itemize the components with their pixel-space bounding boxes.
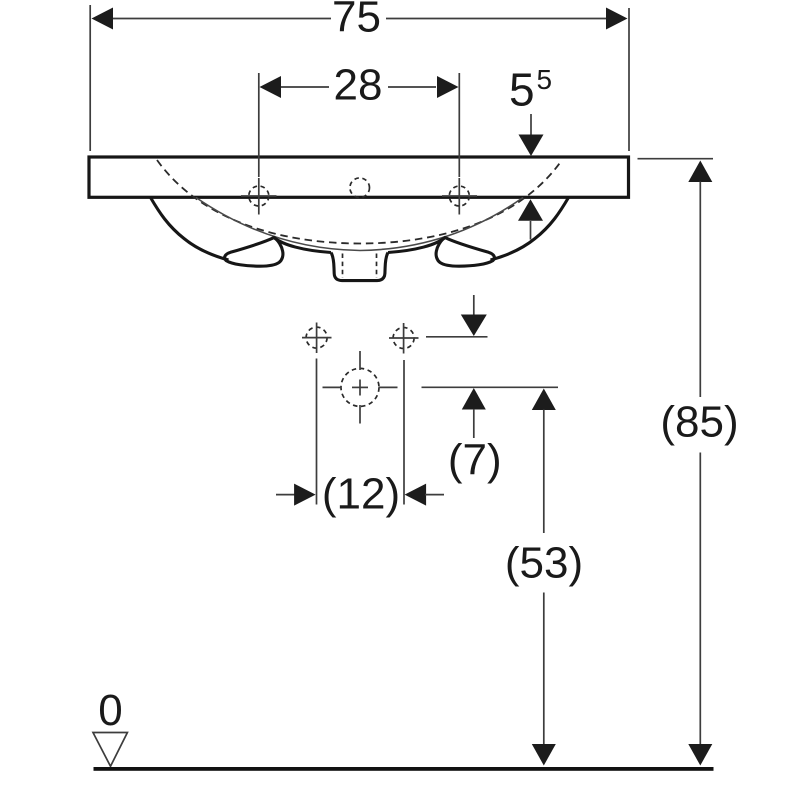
tap hole left: dashed circle + crosshair [241,178,277,215]
dimension 85: line with arrows both ends [688,161,712,183]
fixing hole left: dashed circle + crosshair [302,323,332,354]
drain hidden edge left (dashed) [342,254,344,279]
svg-text:5: 5 [537,64,553,95]
dimension 5.5: lower arrow (up) [518,199,543,221]
dimension 75: line [113,18,606,20]
dimension 75: arrow left [92,8,114,30]
dimension 12: arrow right (pointing left) [405,484,427,506]
dimension 12: extension line right [403,360,405,505]
washbasin rim (front view rectangle) [89,157,629,197]
drain stub [331,253,388,281]
svg-text:(7): (7) [448,436,502,485]
drain hidden edge right (dashed) [376,254,378,279]
dimension 75: extension line left [89,5,91,151]
svg-text:0: 0 [98,686,122,735]
dimension 53: line with arrows both ends [532,389,556,411]
dimension 75: extension line right [628,8,630,151]
shelf line right [388,238,445,253]
dimension 12: arrow left (pointing right) [276,494,296,496]
svg-text:75: 75 [332,0,381,42]
tap hole right: dashed circle + crosshair [442,178,477,215]
fixing hole right: dashed circle + crosshair [389,323,419,354]
dimension 28: extension line right [458,73,460,177]
dimension 75: arrow right [606,8,628,30]
dimension 7: upper arrow (down) pointing at tap-hole level [473,295,475,315]
dimension 7: lower arrow (up) pointing at basin centre level [462,388,486,410]
svg-text:(12): (12) [322,470,400,519]
zero datum triangle [93,733,127,767]
svg-text:28: 28 [334,61,383,110]
bowl silhouette right [491,198,569,261]
inner bowl back edge (dashed arc) [157,160,562,244]
basin centre level line [422,386,559,388]
dimension 5.5: upper arrow (down) [530,114,532,135]
left underside wedge [225,238,283,267]
dimension 28: arrow right [437,76,459,98]
dimension 28: extension line left [258,73,260,177]
dimension 85: extension line from rim [638,158,714,160]
dimension 28: arrow left [260,76,282,98]
tap hole level line [426,336,488,338]
shelf line left [274,238,331,253]
floor line [94,767,714,771]
right underside wedge [436,238,494,267]
dimension 28: line [281,86,436,88]
inner bowl front edge (thin arc) [196,198,523,251]
svg-text:5: 5 [509,64,535,116]
waste hole: dashed circle + centre marks [323,351,398,424]
dimension 12: extension line left [316,359,318,505]
svg-text:(53): (53) [505,539,583,588]
svg-text:(85): (85) [660,398,738,447]
tap hole middle: dashed circle [350,178,370,198]
bowl silhouette left [151,198,229,261]
